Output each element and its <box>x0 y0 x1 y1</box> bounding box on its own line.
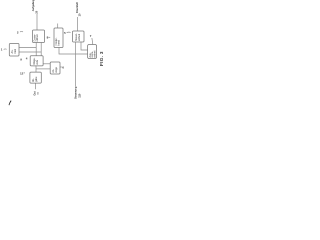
wire box2 bottom right to box4 top <box>40 43 42 56</box>
svg-text:110: 110 <box>77 93 81 98</box>
box 3 tall conveyor <box>54 28 63 48</box>
leader of label 6 <box>60 66 62 68</box>
wire from top-right label 10 down to box 10 <box>77 17 79 31</box>
svg-text:Gut: Gut <box>32 91 36 96</box>
svg-text:12: 12 <box>20 71 24 75</box>
stub wire above tall box 3 <box>57 24 59 29</box>
leader of label 8 <box>49 36 51 38</box>
svg-text:einheit: einheit <box>94 50 97 57</box>
svg-text:gabe: gabe <box>35 76 38 82</box>
leader of label 11 <box>4 48 7 50</box>
wire box4 right to box6 <box>43 63 50 65</box>
leader of label 5 <box>67 31 71 34</box>
box 4 <box>30 56 43 66</box>
box 6 <box>50 62 60 74</box>
svg-text:band: band <box>58 39 61 45</box>
wire box2 bottom left to box4 top <box>35 43 37 56</box>
wire from top-left label 20 down to box 2 <box>36 14 38 30</box>
leader of label 9 <box>24 72 25 74</box>
svg-text:zeige: zeige <box>55 66 58 72</box>
wire junction to box6 lower <box>36 68 50 70</box>
box 13 <box>30 72 41 83</box>
wire box10 long down to bottom-right label <box>75 42 77 86</box>
wire box13 down to bottom label <box>35 83 37 89</box>
wire tall box3 bottom to box14 <box>59 48 88 54</box>
svg-text:trieb: trieb <box>14 48 17 53</box>
box 14 <box>88 45 97 59</box>
svg-text:zelle: zelle <box>36 59 39 65</box>
wire box10 to box14 <box>81 42 88 50</box>
wire box4 to box13 <box>35 66 37 72</box>
svg-text:einheit: einheit <box>78 34 81 41</box>
box 11 <box>9 44 19 57</box>
box 10 <box>73 31 85 42</box>
svg-text:Aufgabegut: Aufgabegut <box>31 0 35 11</box>
handwritten mark bottom-left <box>9 101 11 105</box>
svg-text:Druckluft: Druckluft <box>75 2 79 13</box>
svg-text:Steuerung: Steuerung <box>73 86 77 99</box>
svg-text:einheit: einheit <box>36 34 39 41</box>
leader of label 7 to box14 top <box>91 38 94 44</box>
leader of label 2 <box>20 30 23 32</box>
wire box11 out lower <box>19 51 41 53</box>
svg-text:FIG. 3: FIG. 3 <box>99 51 104 66</box>
wire box11 out upper <box>19 47 36 49</box>
box 2 <box>33 30 45 43</box>
